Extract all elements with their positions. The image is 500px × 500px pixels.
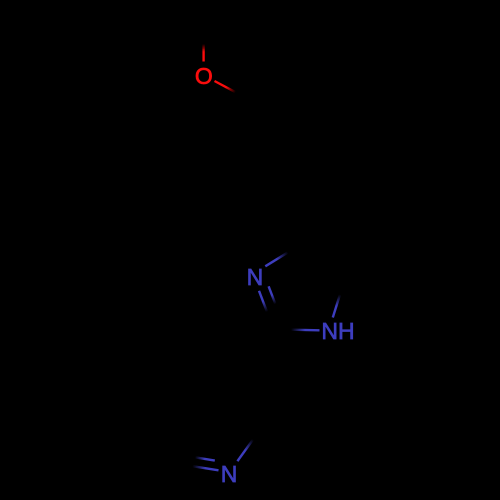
bond CH3-O (O half, red) (202, 44, 204, 62)
bond N1-C5 (N half, blue) (333, 295, 340, 318)
double bond Npy=C6py main line (N half, blue) (193, 466, 219, 470)
svg-text:N: N (247, 264, 264, 290)
double bond Npy=C6py inner line (N half, blue) (195, 457, 215, 460)
bond C2-N1 (N half, blue) (291, 329, 320, 332)
double bond N3=C2 main line (N half, blue) (259, 291, 267, 312)
double bond N3=C2 inner line (N half, blue) (269, 286, 276, 304)
svg-text:O: O (195, 63, 213, 89)
bond O-C6H4 (O half, red) (215, 81, 236, 92)
svg-text:NH: NH (321, 318, 354, 344)
bond Npy-C2py (N half, blue) (237, 440, 253, 462)
bond N3-C4 (N half, blue) (265, 252, 288, 266)
svg-text:N: N (221, 461, 238, 487)
